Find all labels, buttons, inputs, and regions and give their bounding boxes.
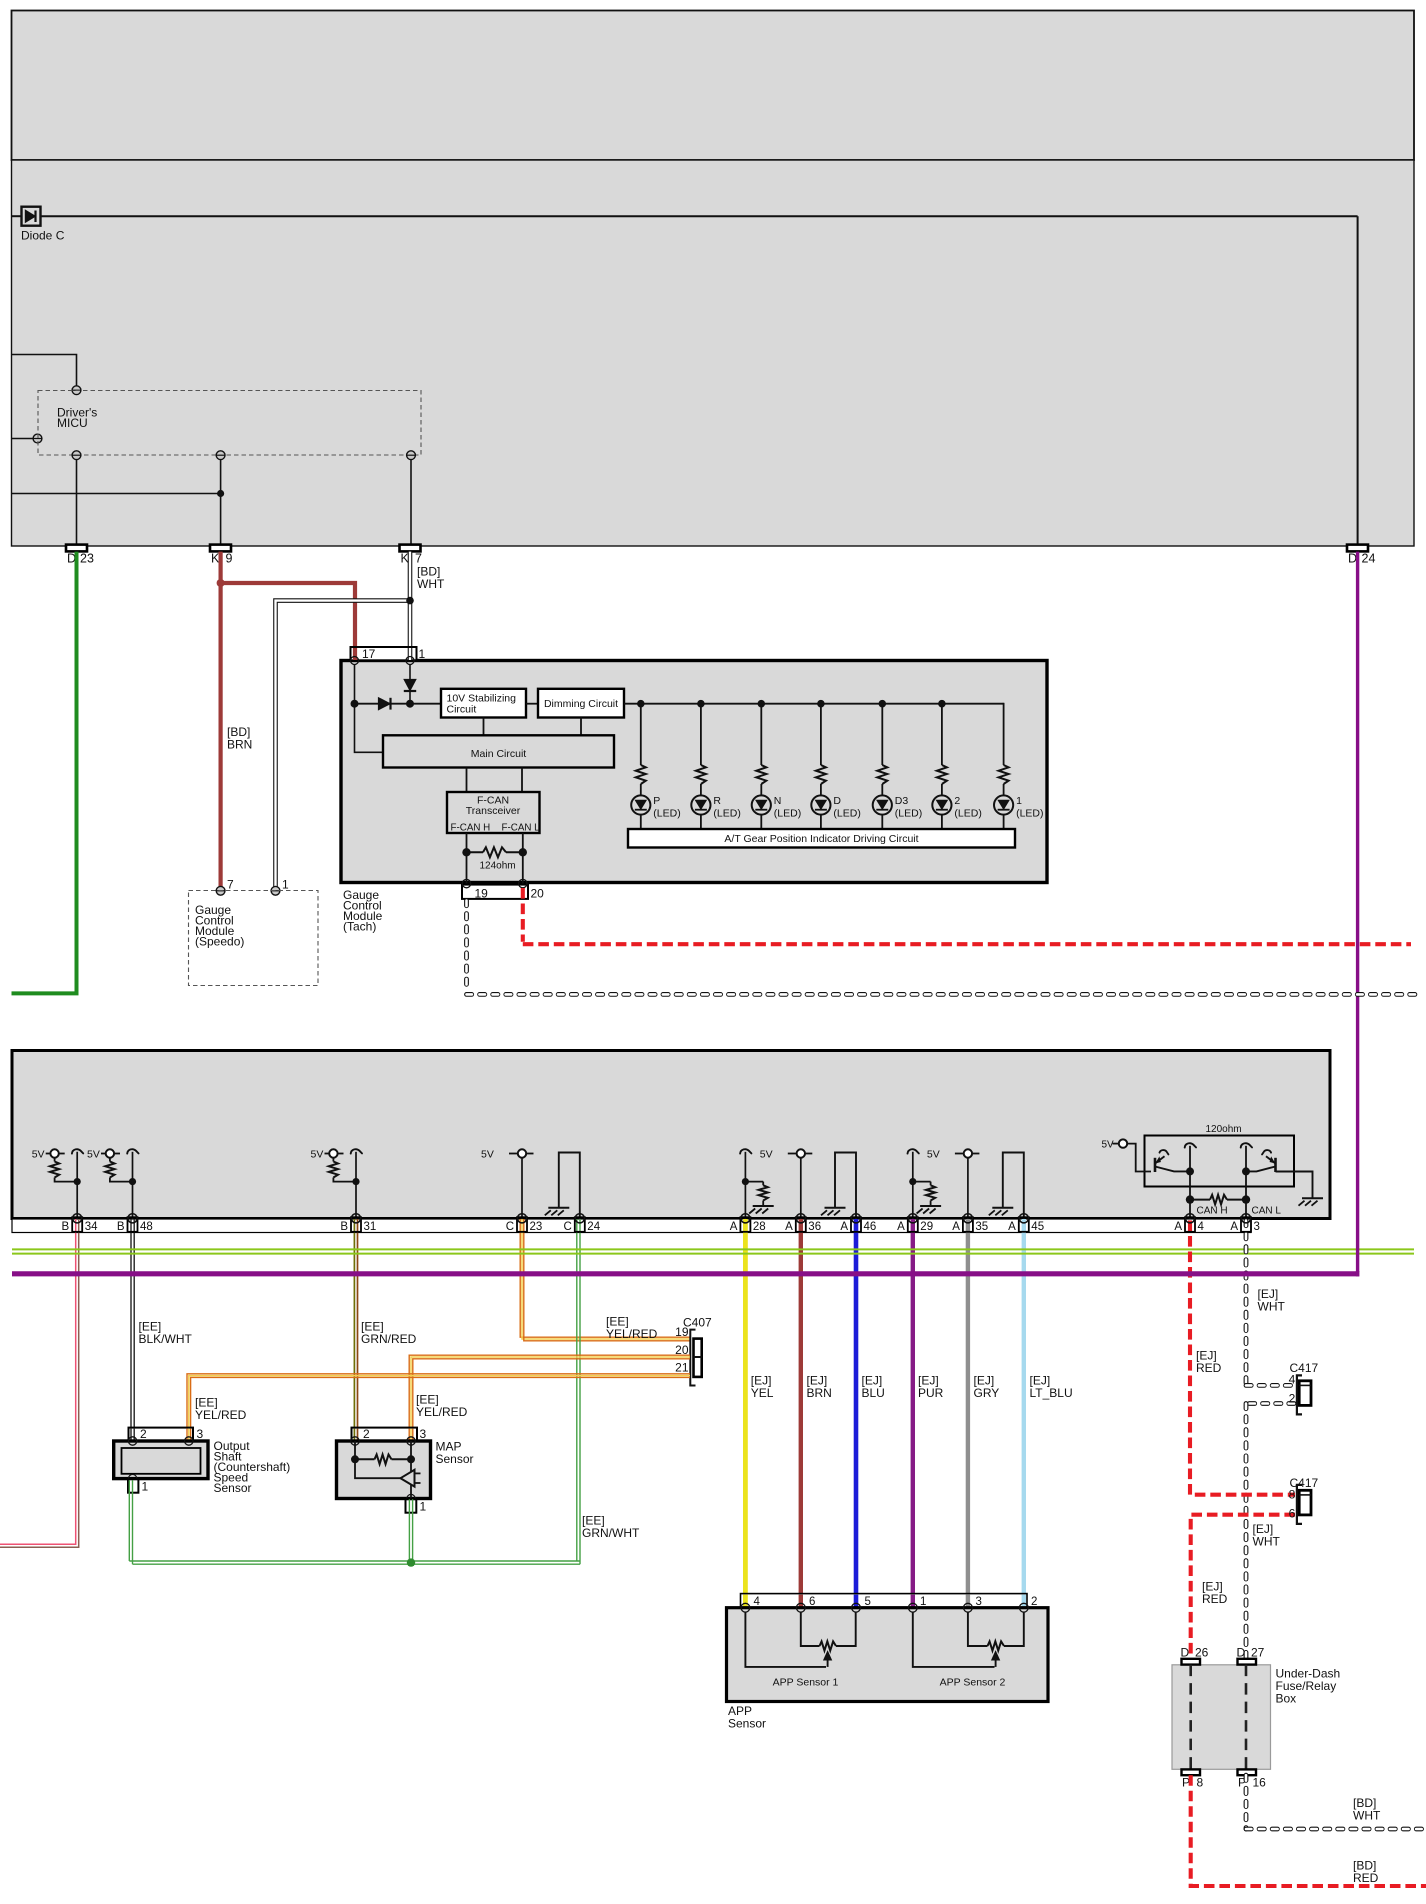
wire from left edge to Driver's MICU left pin xyxy=(12,438,34,440)
wire Dimming box to Main Circuit xyxy=(580,718,582,736)
MAP sensor pin 3 internal wire xyxy=(410,1441,412,1499)
wire RED from B 34 to left edge xyxy=(0,1219,79,1547)
CAN L internal wire xyxy=(1241,1143,1252,1219)
svg-text:17: 17 xyxy=(362,647,376,661)
junction Q1-CANH xyxy=(1186,1167,1194,1175)
svg-text:D3: D3 xyxy=(895,795,909,807)
APP sensor pin terminal xyxy=(908,1603,917,1612)
wire BRN from K 9 down to Speedo pin 7 xyxy=(219,552,223,888)
label [EJ] WHT (lower) xyxy=(1253,1522,1281,1549)
white dashed wire WHT from Tach pin 19 xyxy=(467,901,1416,995)
svg-text:1: 1 xyxy=(419,647,426,661)
svg-text:C: C xyxy=(563,1221,571,1233)
wire from Diode C to node above D 24 xyxy=(41,215,1358,217)
ECM pin A 46 xyxy=(840,1214,876,1233)
ground for CAN driver xyxy=(1299,1198,1324,1206)
diode on supply rail xyxy=(379,698,391,710)
ECM pin C 23 xyxy=(506,1214,543,1233)
label [EE] YEL/RED at MAP xyxy=(416,1393,468,1420)
ground loop for pin C 24 xyxy=(545,1153,580,1220)
corner for LED 1 xyxy=(1003,703,1005,705)
ECM pin A 36 xyxy=(785,1214,821,1233)
Driver's MICU bottom pin 3 (to K 7) xyxy=(407,451,416,460)
svg-text:YEL/RED: YEL/RED xyxy=(416,1405,468,1419)
svg-text:16: 16 xyxy=(1253,1776,1267,1790)
svg-text:D: D xyxy=(1181,1646,1190,1660)
10V Stabilizing Circuit box xyxy=(441,689,526,718)
svg-text:A/T Gear Position Indicator Dr: A/T Gear Position Indicator Driving Circ… xyxy=(724,833,918,845)
Driver's MICU bottom pin 2 (to K 9) xyxy=(216,451,225,460)
transistor Q1 (CAN H driver) xyxy=(1155,1150,1190,1172)
wire BLU from A 46 to APP pin 5 xyxy=(854,1219,859,1604)
5V supply for CAN driver xyxy=(1102,1139,1152,1171)
svg-text:BRN: BRN xyxy=(807,1386,832,1400)
label [EJ] BRN xyxy=(807,1374,832,1401)
svg-text:1: 1 xyxy=(282,878,289,892)
5V supply for pin C 23 xyxy=(481,1149,534,1161)
svg-text:B: B xyxy=(117,1221,125,1233)
svg-text:27: 27 xyxy=(1251,1646,1265,1660)
connector D 23 xyxy=(66,545,94,566)
svg-text:Sensor: Sensor xyxy=(214,1481,252,1495)
ECM pin A 4 xyxy=(1174,1214,1204,1233)
svg-text:(LED): (LED) xyxy=(954,808,981,820)
label [EE] GRN/WHT xyxy=(582,1514,640,1541)
resistor for LED P xyxy=(636,704,646,796)
CAN driver block outline xyxy=(1145,1136,1295,1187)
svg-text:5V: 5V xyxy=(1102,1139,1115,1150)
label APP Sensor xyxy=(728,1704,766,1731)
label [BD] WHT xyxy=(1353,1796,1381,1823)
junction CANH terminating resistor xyxy=(1186,1195,1194,1203)
label [EE] GRN/RED xyxy=(361,1320,417,1347)
svg-text:4: 4 xyxy=(1289,1373,1296,1387)
svg-text:2: 2 xyxy=(1031,1596,1037,1608)
label MAP Sensor xyxy=(436,1440,474,1467)
ECM pin B 34 xyxy=(62,1214,99,1233)
wire 10V box to Main Circuit xyxy=(483,718,485,736)
svg-text:GRY: GRY xyxy=(974,1386,1000,1400)
svg-text:24: 24 xyxy=(587,1221,600,1233)
MAP sensor pin 2 internal wire xyxy=(354,1441,356,1459)
svg-text:BRN: BRN xyxy=(227,738,252,752)
label APP Sensor 2 xyxy=(940,1677,1006,1689)
svg-text:CAN H: CAN H xyxy=(1197,1206,1228,1217)
svg-text:Diode C: Diode C xyxy=(21,229,65,243)
speed sensor pin 2 terminal xyxy=(128,1437,136,1445)
svg-text:5V: 5V xyxy=(760,1149,773,1161)
under-dash fuse/relay box xyxy=(1172,1665,1271,1770)
svg-text:7: 7 xyxy=(227,878,234,892)
svg-text:4: 4 xyxy=(754,1596,761,1608)
gauge control module (Tach) box xyxy=(341,661,1047,883)
svg-text:1: 1 xyxy=(1016,795,1022,807)
svg-text:29: 29 xyxy=(920,1221,933,1233)
svg-text:2: 2 xyxy=(140,1427,147,1441)
Speedo pin 7 terminal xyxy=(216,878,234,896)
wire BRN from A 36 to APP pin 6 xyxy=(799,1219,803,1604)
LED P xyxy=(631,795,681,829)
wire F-CAN L to pin 20 xyxy=(522,833,524,884)
svg-text:N: N xyxy=(774,795,782,807)
resistor for LED D3 xyxy=(877,704,887,796)
svg-text:3: 3 xyxy=(197,1427,204,1441)
junction GRN at MAP pin 1 xyxy=(407,1558,415,1566)
wire GRN from C 24 down xyxy=(577,1219,580,1564)
Driver's MICU left pin xyxy=(33,434,42,443)
wire MICU pin2 to K 9 xyxy=(220,460,222,545)
svg-text:CAN L: CAN L xyxy=(1252,1206,1282,1217)
svg-text:WHT: WHT xyxy=(1353,1809,1381,1823)
svg-text:BLK/WHT: BLK/WHT xyxy=(139,1332,193,1346)
svg-text:YEL/RED: YEL/RED xyxy=(195,1408,247,1422)
APP sensor pin terminal xyxy=(1019,1603,1028,1612)
svg-text:46: 46 xyxy=(864,1221,877,1233)
junction at diode output xyxy=(406,700,414,708)
label Gauge Control Module (Tach) xyxy=(343,888,383,934)
MAP pin 2 terminal xyxy=(351,1437,359,1445)
label [EJ] WHT (upper) xyxy=(1258,1287,1286,1314)
5V supply for pin A 35 xyxy=(927,1149,980,1161)
svg-text:F-CAN L: F-CAN L xyxy=(502,823,541,834)
5V pull-up with resistor for pin B 31 xyxy=(311,1149,363,1186)
Driver's MICU top pin xyxy=(72,386,81,395)
wire PUR from A 29 to APP pin 1 xyxy=(911,1219,915,1604)
ECM pin A 28 xyxy=(730,1214,766,1233)
svg-text:D: D xyxy=(833,795,841,807)
svg-text:RED: RED xyxy=(1196,1361,1222,1375)
ECM / PCM box xyxy=(12,1051,1330,1219)
label [EJ] RED (lower) xyxy=(1202,1580,1228,1607)
junction at pin17 rail xyxy=(351,700,359,708)
terminating resistor 120ohm xyxy=(1190,1195,1246,1205)
svg-text:5V: 5V xyxy=(481,1149,494,1161)
bus wire YEL-GRN (double lime) xyxy=(12,1249,1414,1253)
ECM pin B 31 xyxy=(340,1214,376,1233)
svg-text:WHT: WHT xyxy=(1258,1300,1286,1314)
svg-text:WHT: WHT xyxy=(1253,1535,1281,1549)
svg-text:WHT: WHT xyxy=(417,577,445,591)
junction for LED R xyxy=(697,700,705,708)
svg-text:Box: Box xyxy=(1276,1692,1297,1706)
svg-text:RED: RED xyxy=(1202,1592,1228,1606)
LED R xyxy=(691,795,741,829)
ground loop for pin A 46 xyxy=(821,1153,856,1220)
wire pin A 35 to 5V xyxy=(967,1158,969,1219)
white wire WHT branch to Speedo pin 1 xyxy=(276,601,411,887)
diode C xyxy=(21,207,65,243)
connector D 27 xyxy=(1237,1646,1265,1665)
wire MICU pin1 to D 23 xyxy=(76,460,78,545)
label [EE] BLK/WHT xyxy=(139,1320,193,1347)
svg-text:2: 2 xyxy=(363,1427,370,1441)
svg-text:48: 48 xyxy=(140,1221,153,1233)
svg-text:2: 2 xyxy=(1289,1391,1296,1405)
APP sensor pin terminal xyxy=(852,1603,861,1612)
svg-text:YEL/RED: YEL/RED xyxy=(606,1327,658,1341)
Dimming Circuit box xyxy=(538,689,624,718)
connector P 16 xyxy=(1238,1769,1267,1789)
svg-text:YEL: YEL xyxy=(751,1386,774,1400)
svg-text:PUR: PUR xyxy=(918,1386,944,1400)
svg-text:24: 24 xyxy=(1362,552,1376,566)
wire YEL/RED from C 23 to C407 pin 19 xyxy=(520,1219,690,1341)
svg-text:5: 5 xyxy=(865,1596,871,1608)
svg-text:R: R xyxy=(713,795,721,807)
red dashed wire [BD] RED from P 8 to right edge xyxy=(1191,1775,1426,1886)
svg-text:BLU: BLU xyxy=(862,1386,885,1400)
label [BD] BRN xyxy=(227,725,252,752)
svg-text:LT_BLU: LT_BLU xyxy=(1030,1386,1073,1400)
svg-text:A: A xyxy=(1230,1221,1238,1233)
svg-text:35: 35 xyxy=(975,1221,988,1233)
Speedo pin 1 terminal xyxy=(271,878,289,896)
wire YEL/RED from MAP pin 3 to C407 pin 20 xyxy=(409,1355,690,1441)
connector K 9 xyxy=(210,545,233,566)
svg-text:Sensor: Sensor xyxy=(436,1452,474,1466)
transistor Q2 (CAN L driver) xyxy=(1246,1150,1313,1198)
label CAN H xyxy=(1197,1206,1228,1217)
MAP pin 3 terminal xyxy=(407,1437,415,1445)
junction on WHT wire xyxy=(406,597,414,605)
Main Circuit box xyxy=(383,735,614,767)
LED N xyxy=(752,795,802,829)
wire pin17 down to Main Circuit xyxy=(355,665,384,753)
svg-text:Main Circuit: Main Circuit xyxy=(471,748,527,760)
svg-text:(LED): (LED) xyxy=(895,808,922,820)
5V supply for pin A 36 xyxy=(760,1149,813,1161)
svg-text:A: A xyxy=(785,1221,793,1233)
label [BD] WHT xyxy=(417,565,445,592)
svg-text:7: 7 xyxy=(415,552,422,566)
red dashed wire RED from Tach pin 20 xyxy=(523,888,1411,944)
wire pin A 36 to 5V xyxy=(800,1158,802,1219)
svg-text:B: B xyxy=(340,1221,348,1233)
ECM pin B 48 xyxy=(117,1214,153,1233)
fuse box internal wire D27-P16 (dashed) xyxy=(1245,1665,1248,1770)
label 120ohm xyxy=(1206,1124,1242,1135)
svg-text:120ohm: 120ohm xyxy=(1206,1124,1242,1135)
junction CANL terminating resistor xyxy=(1242,1195,1250,1203)
APP sensor pin terminal xyxy=(741,1603,750,1612)
ECM pin A 45 xyxy=(1008,1214,1044,1233)
svg-text:1: 1 xyxy=(420,1500,427,1514)
pull-down resistor to ground for pin A 29 xyxy=(908,1149,942,1219)
svg-text:2: 2 xyxy=(954,795,960,807)
junction Q2-CANL xyxy=(1242,1167,1250,1175)
connector D 24 xyxy=(1347,545,1375,566)
label APP Sensor 1 xyxy=(773,1677,839,1689)
APP sensor pin terminal xyxy=(964,1603,973,1612)
svg-text:31: 31 xyxy=(364,1221,377,1233)
svg-text:28: 28 xyxy=(753,1221,766,1233)
Driver's MICU (dashed box) xyxy=(38,391,421,456)
5V pull-up with resistor for pin B 48 xyxy=(87,1149,139,1186)
Tach internal supply rail xyxy=(355,703,442,705)
LED supply rail from Dimming Circuit xyxy=(624,703,1004,705)
A/T Gear Position Indicator Driving Circuit box xyxy=(628,829,1015,848)
svg-text:3: 3 xyxy=(420,1427,427,1441)
svg-text:34: 34 xyxy=(85,1221,98,1233)
resistor 124ohm xyxy=(467,847,523,871)
label [BD] RED xyxy=(1353,1859,1379,1886)
label [EJ] PUR xyxy=(918,1374,944,1401)
svg-text:(LED): (LED) xyxy=(653,808,680,820)
APP sensor connector pins xyxy=(741,1594,1038,1608)
svg-text:APP Sensor 1: APP Sensor 1 xyxy=(773,1677,839,1689)
power distribution box (top) xyxy=(12,11,1415,161)
label [EE] YEL/RED at speed sensor xyxy=(195,1396,247,1423)
ECM connector strip xyxy=(12,1219,1251,1233)
svg-text:GRN/RED: GRN/RED xyxy=(361,1332,417,1346)
wire down to D 24 xyxy=(1357,216,1359,545)
white wire WHT from K 7 to Tach pin 1 xyxy=(408,552,413,660)
junction for LED D xyxy=(817,700,825,708)
wire Main Circuit to F-CAN H xyxy=(466,768,468,793)
svg-text:4: 4 xyxy=(1198,1221,1205,1233)
wire Main Circuit to F-CAN L xyxy=(521,768,523,793)
wire F-CAN H to pin 19 xyxy=(466,833,468,884)
svg-text:MICU: MICU xyxy=(57,416,88,430)
fuse box region (second gray band) xyxy=(12,160,1415,546)
svg-text:23: 23 xyxy=(530,1221,543,1233)
wire pin B 48 to 5V node xyxy=(132,1152,134,1219)
svg-text:(LED): (LED) xyxy=(833,808,860,820)
svg-text:A: A xyxy=(1174,1221,1182,1233)
svg-text:(LED): (LED) xyxy=(774,808,801,820)
resistor for LED D xyxy=(816,704,826,796)
svg-text:3: 3 xyxy=(1254,1221,1260,1233)
svg-text:124ohm: 124ohm xyxy=(480,861,516,872)
ECM pin A 3 xyxy=(1230,1214,1260,1233)
MAP transducer element xyxy=(355,1459,421,1486)
connector C417 (lower) xyxy=(1289,1476,1319,1524)
resistor for LED 1 xyxy=(999,704,1009,796)
LED 1 xyxy=(994,795,1044,829)
MAP sensor pin 1 xyxy=(406,1494,427,1513)
wire pin B 31 to 5V node xyxy=(355,1152,357,1219)
svg-text:19: 19 xyxy=(475,887,489,901)
wire 10V box to Dimming Circuit xyxy=(526,703,538,705)
wire GRY from A 35 to APP pin 3 xyxy=(966,1219,970,1604)
Gauge Control Module (Speedo) dashed box xyxy=(189,891,319,986)
wire from left edge joining K 9 wire xyxy=(12,493,221,495)
connector C417 (upper) xyxy=(1289,1361,1319,1414)
Tach bottom connector pins 19 / 20 xyxy=(462,879,544,900)
ground loop for pin A 45 xyxy=(989,1153,1024,1220)
svg-text:A: A xyxy=(897,1221,905,1233)
junction F-CAN H xyxy=(462,848,470,856)
svg-text:5V: 5V xyxy=(927,1149,940,1161)
svg-text:(Speedo): (Speedo) xyxy=(195,935,244,949)
svg-text:6: 6 xyxy=(809,1596,815,1608)
connector D 26 xyxy=(1181,1646,1209,1665)
svg-text:A: A xyxy=(840,1221,848,1233)
wire from left edge to Driver's MICU top pin xyxy=(12,355,77,387)
label Output Shaft (Countershaft) Speed Sensor xyxy=(214,1439,291,1495)
MAP sensor connector pins 2 / 3 xyxy=(352,1427,427,1441)
junction on K 9 wire xyxy=(217,490,224,497)
label [EE] YEL/RED at C407 xyxy=(606,1315,658,1342)
green wire GRN from D 23 to left edge xyxy=(12,552,77,994)
wire pin C 23 to 5V xyxy=(521,1158,523,1219)
label CAN L xyxy=(1252,1206,1282,1217)
label [EJ] YEL xyxy=(751,1374,774,1401)
svg-text:D: D xyxy=(1237,1646,1246,1660)
svg-text:APP Sensor 2: APP Sensor 2 xyxy=(940,1677,1006,1689)
svg-text:3: 3 xyxy=(976,1596,982,1608)
resistor for LED 2 xyxy=(937,704,947,796)
connector P 8 xyxy=(1182,1769,1204,1789)
LED D xyxy=(811,795,861,829)
svg-text:6: 6 xyxy=(1289,1506,1296,1520)
wire from left edge to Diode C xyxy=(12,215,23,217)
output shaft (countershaft) speed sensor box xyxy=(114,1441,208,1479)
svg-text:Sensor: Sensor xyxy=(728,1717,766,1731)
red dashed wire [EJ] RED from A 4 through C417 to D 26 xyxy=(1190,1221,1295,1659)
speed sensor pin 3 terminal xyxy=(185,1437,193,1445)
junction for LED N xyxy=(758,700,766,708)
ECM pin A 35 xyxy=(952,1214,988,1233)
MAP internal resistor xyxy=(351,1455,415,1465)
svg-text:P: P xyxy=(653,795,660,807)
svg-text:9: 9 xyxy=(226,552,233,566)
svg-text:A: A xyxy=(730,1221,738,1233)
wire GRN ground bus to speed sensor pin 1 xyxy=(129,1480,580,1564)
BRN branch wire to Tach pin 17 xyxy=(221,583,355,660)
svg-text:C: C xyxy=(506,1221,514,1233)
svg-text:26: 26 xyxy=(1195,1646,1209,1660)
svg-text:8: 8 xyxy=(1197,1776,1204,1790)
speed sensor pin 1 xyxy=(128,1474,149,1493)
junction on BRN wire xyxy=(217,579,225,587)
ECM pin A 29 xyxy=(897,1214,933,1233)
svg-text:20: 20 xyxy=(531,887,545,901)
svg-text:5V: 5V xyxy=(87,1149,100,1161)
wire GRN from MAP pin 1 to ground bus xyxy=(409,1499,412,1561)
Tach top connector pins 17 / 1 xyxy=(351,647,426,665)
svg-text:RED: RED xyxy=(1353,1871,1379,1885)
svg-text:A: A xyxy=(1008,1221,1016,1233)
junction for LED 2 xyxy=(938,700,946,708)
APP sensor pin terminal xyxy=(796,1603,805,1612)
wire BLK/WHT from B 48 to speed sensor pin 2 xyxy=(131,1219,134,1440)
wire GRN/RED from B 31 to MAP sensor pin 2 xyxy=(354,1219,357,1440)
wire YEL from A 28 to APP pin 4 xyxy=(743,1219,748,1604)
resistor for LED N xyxy=(756,704,766,796)
svg-text:D: D xyxy=(1348,552,1357,566)
svg-text:36: 36 xyxy=(808,1221,821,1233)
svg-text:1: 1 xyxy=(142,1480,149,1494)
svg-text:(LED): (LED) xyxy=(1016,808,1043,820)
svg-text:(Tach): (Tach) xyxy=(343,920,376,934)
label [EJ] GRY xyxy=(974,1374,1000,1401)
junction for LED D3 xyxy=(879,700,887,708)
svg-text:5V: 5V xyxy=(32,1149,45,1161)
svg-text:45: 45 xyxy=(1031,1221,1044,1233)
svg-text:21: 21 xyxy=(675,1361,689,1375)
speed sensor connector pins 2 / 3 xyxy=(129,1427,204,1441)
Driver's MICU bottom pin 1 (to D 23) xyxy=(72,451,81,460)
svg-text:5V: 5V xyxy=(311,1149,324,1161)
APP sensor 1 wiring xyxy=(745,1612,855,1667)
svg-text:Circuit: Circuit xyxy=(447,704,477,716)
junction for LED P xyxy=(637,700,645,708)
resistor for LED R xyxy=(696,704,706,796)
svg-text:1: 1 xyxy=(920,1596,926,1608)
svg-text:F-CAN H: F-CAN H xyxy=(451,823,491,834)
wire pin B 34 to 5V node xyxy=(76,1152,78,1219)
